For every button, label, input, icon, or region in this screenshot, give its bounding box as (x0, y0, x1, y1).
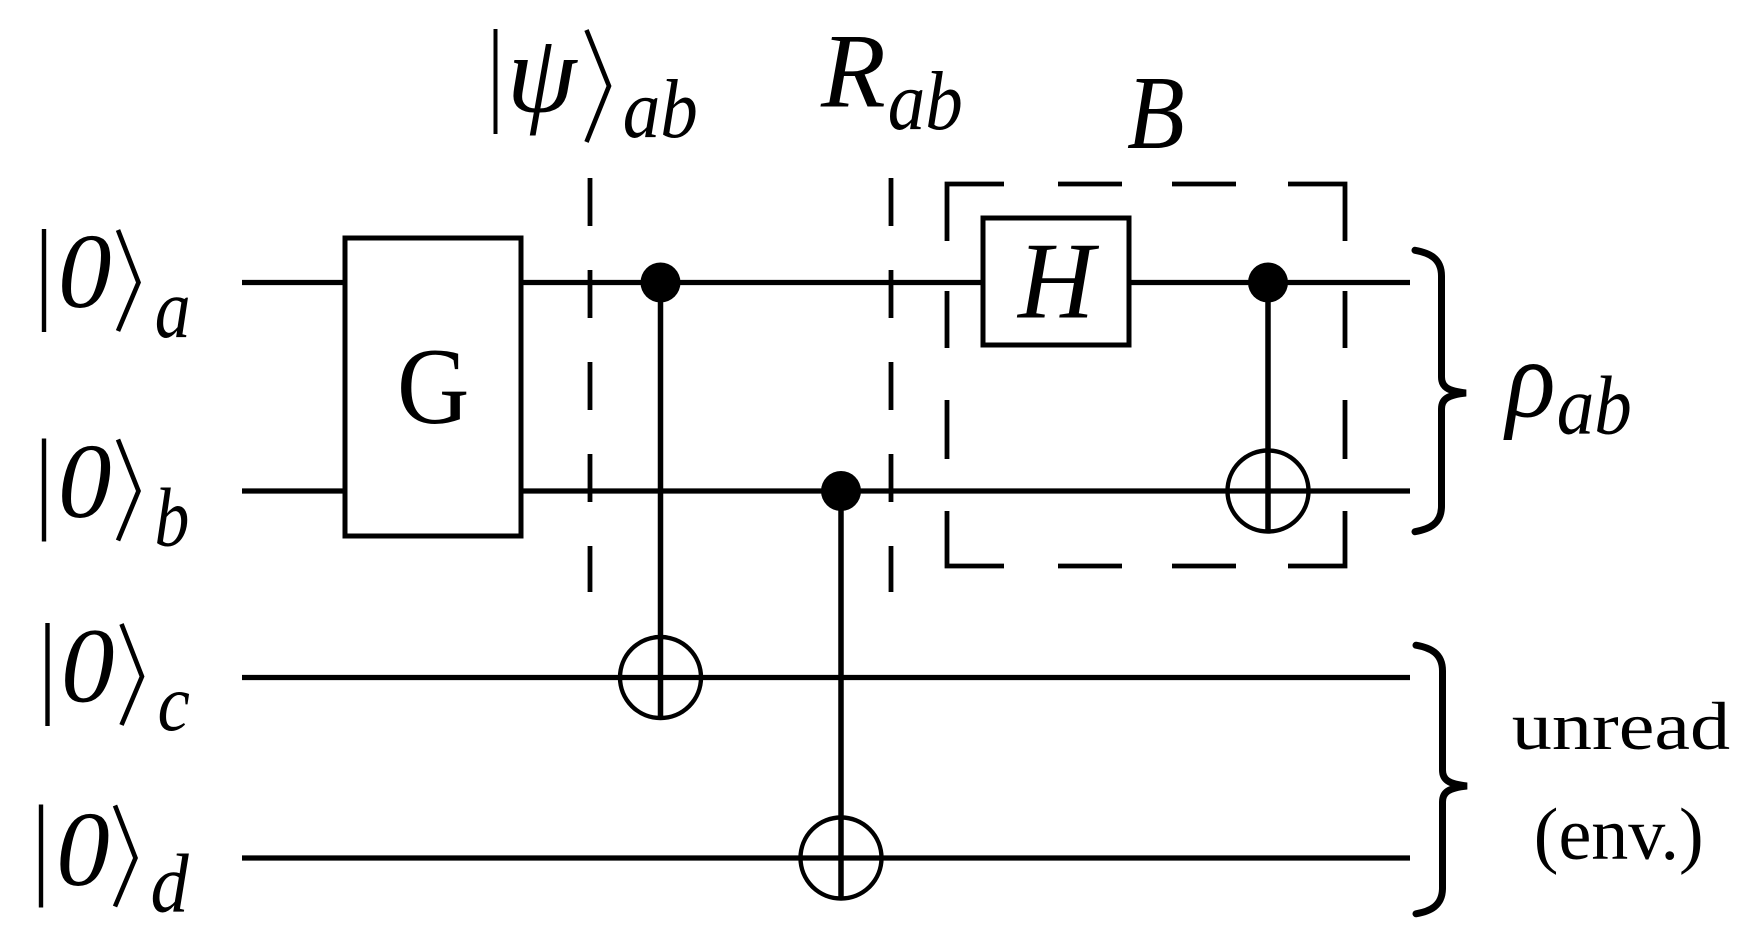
svg-text:0: 0 (61, 608, 115, 726)
svg-text:0: 0 (58, 213, 112, 331)
svg-text:G: G (397, 326, 469, 447)
brace rho_ab (1415, 250, 1466, 531)
node label |0>_b (44, 423, 189, 564)
node label |0>_c (48, 608, 190, 748)
svg-text:ρ: ρ (1503, 318, 1555, 441)
node label R_ab (820, 13, 963, 148)
wire a (242, 280, 1410, 285)
box B dashed (right edge) (1343, 291, 1348, 459)
node label |0>_a (44, 213, 191, 356)
svg-text:(env.): (env.) (1534, 794, 1704, 876)
node label rho_ab (1503, 318, 1632, 452)
box B dashed (bottom edge) (947, 511, 1345, 566)
svg-text:R: R (820, 13, 886, 130)
target CNOT on wire d (801, 818, 882, 899)
wire: CNOT b->d vertical (838, 491, 844, 899)
svg-text:ab: ab (1557, 360, 1632, 453)
wire: CNOT a->c vertical (658, 283, 664, 719)
gate G box (345, 238, 521, 536)
box B dashed (top edge) (947, 184, 1345, 241)
control dot CNOT b->d (821, 471, 861, 511)
svg-text:0: 0 (56, 791, 110, 909)
target CNOT on wire c (620, 637, 701, 718)
svg-text:a: a (155, 262, 191, 356)
brace unread (1416, 645, 1467, 914)
svg-text:d: d (151, 837, 190, 930)
svg-text:B: B (1127, 54, 1185, 171)
svg-text:ψ: ψ (507, 13, 579, 137)
node label |0>_d (41, 791, 190, 930)
node |psi>_ab dashed cut line (588, 178, 593, 592)
svg-text:0: 0 (58, 423, 112, 541)
gate H box (983, 218, 1129, 345)
wire: CNOT a->b vertical (in B) (1265, 283, 1271, 532)
wire c (242, 675, 1410, 680)
wire b (242, 488, 1410, 493)
control dot CNOT a->b (1248, 263, 1288, 303)
svg-text:ab: ab (623, 63, 698, 156)
svg-text:b: b (155, 470, 190, 564)
control dot CNOT a->c (641, 263, 681, 303)
node R_ab dashed cut line (889, 178, 894, 592)
box B dashed (left edge) (945, 291, 950, 459)
svg-text:unread: unread (1512, 690, 1730, 765)
svg-text:H: H (1016, 221, 1100, 342)
node label |psi>_ab (496, 13, 698, 156)
wire d (242, 855, 1410, 860)
target CNOT on wire b (1228, 451, 1309, 532)
svg-text:ab: ab (888, 55, 963, 148)
svg-text:c: c (158, 657, 190, 747)
